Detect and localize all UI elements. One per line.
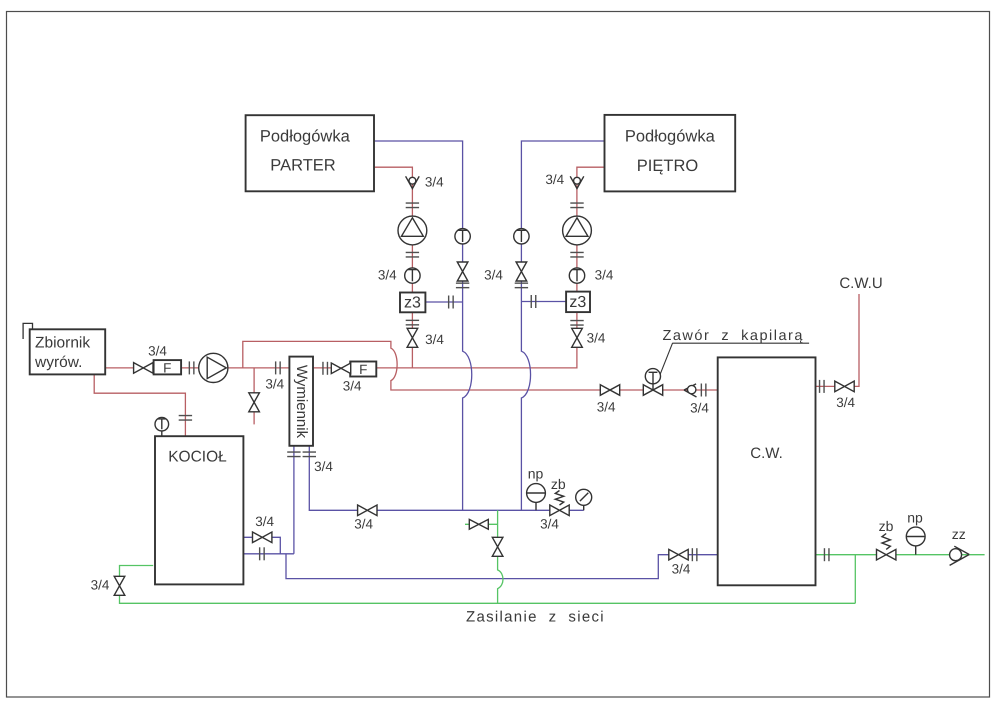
- svg-text:F: F: [163, 361, 171, 376]
- svg-text:Podłogówka: Podłogówka: [260, 128, 351, 146]
- label 3/4 green fill valve: [91, 578, 110, 593]
- thermometer T2 PIETRO column: [569, 268, 584, 283]
- valve green riser: [492, 537, 503, 556]
- box KOCIOL boiler: [155, 436, 243, 584]
- three-way valve with thermostat head: [643, 369, 662, 396]
- valve drain stub under main line: [249, 393, 260, 412]
- box C.W. hot water tank: [718, 357, 816, 585]
- label 3/4 return valve: [354, 517, 373, 532]
- label 3/4 union before Wymiennik: [265, 376, 284, 391]
- label 3/4 check valve C.W.: [690, 401, 709, 416]
- wire blue PARTER return column with pipe jump: [374, 141, 472, 510]
- thermometer T3 blue left: [455, 229, 470, 244]
- valve C.W.U: [835, 381, 854, 392]
- union above KOCIOL: [179, 416, 192, 421]
- thermometer T4 blue right: [514, 229, 529, 244]
- label 3/4 below z3 right: [587, 330, 606, 345]
- label C.W.U: [839, 275, 882, 292]
- svg-text:3/4: 3/4: [343, 379, 362, 394]
- pump P3 PIETRO: [563, 216, 592, 245]
- svg-text:np: np: [907, 510, 923, 526]
- svg-text:3/4: 3/4: [690, 401, 709, 416]
- box Zbiornik wyrownawczy: [30, 329, 106, 374]
- valve green drain stub: [469, 519, 488, 529]
- svg-text:zz: zz: [952, 526, 966, 542]
- union U15: [570, 252, 583, 257]
- union U8 z3 left connector: [449, 296, 454, 309]
- wire red Zbiornik bottom drop to KOCIOL top: [94, 374, 185, 436]
- capillary leader line: [660, 343, 672, 374]
- svg-text:F: F: [359, 362, 367, 377]
- valve below z3 left: [407, 328, 418, 347]
- valve C.W. bottom inlet: [669, 549, 688, 560]
- union U14: [570, 203, 583, 208]
- label 3/4 zb left: [540, 517, 559, 532]
- svg-text:Zawór z kapilarą: Zawór z kapilarą: [663, 328, 804, 344]
- svg-text:np: np: [528, 466, 544, 482]
- svg-text:3/4: 3/4: [484, 268, 503, 283]
- valve blue left column: [457, 262, 468, 281]
- label 3/4 valve C.W. supply: [597, 400, 616, 415]
- svg-text:Zasilanie z sieci: Zasilanie z sieci: [466, 609, 605, 626]
- svg-text:3/4: 3/4: [91, 578, 110, 593]
- svg-text:C.W.: C.W.: [750, 445, 783, 462]
- svg-text:PARTER: PARTER: [270, 157, 335, 175]
- union U16 below z3 right: [570, 321, 583, 326]
- wire blue z3 left connector: [425, 301, 462, 303]
- label Zasilanie z sieci: [466, 609, 605, 626]
- union C.W. bottom outlet green: [824, 548, 829, 561]
- valve after Wymiennik: [331, 363, 350, 374]
- wire green drain stub: [465, 523, 498, 525]
- union U17: [456, 283, 469, 288]
- wire red C.W.U riser: [816, 294, 860, 386]
- svg-text:Wymiennik: Wymiennik: [293, 365, 310, 439]
- svg-text:Podłogówka: Podłogówka: [625, 128, 716, 146]
- svg-text:z3: z3: [404, 294, 421, 311]
- label 3/4 C.W.U valve: [836, 395, 855, 410]
- svg-text:3/4: 3/4: [540, 517, 559, 532]
- wire blue PIETRO return column with pipe jump: [521, 141, 604, 510]
- svg-text:3/4: 3/4: [425, 332, 444, 347]
- svg-text:3/4: 3/4: [265, 376, 284, 391]
- valve Zbiornik outlet: [134, 363, 153, 374]
- label 3/4 air vent PARTER: [425, 174, 444, 189]
- overflow pipe hook on Zbiornik: [23, 323, 32, 339]
- wire green C.W. outlet line to right edge: [816, 554, 985, 556]
- wire red PARTER supply column: [374, 167, 412, 368]
- union U11: [406, 203, 419, 208]
- union U18: [515, 283, 528, 288]
- label 3/4 Wymiennik unions: [314, 459, 333, 474]
- svg-text:KOCIOŁ: KOCIOŁ: [168, 449, 227, 466]
- svg-text:3/4: 3/4: [314, 459, 333, 474]
- check valve zz: [950, 546, 970, 565]
- union Wymiennik left stem: [287, 452, 300, 457]
- box z3 mixing valve right: [566, 292, 590, 313]
- safety valve zb right: [877, 534, 896, 561]
- box filter F right: [350, 362, 376, 378]
- label zb right: [879, 518, 894, 534]
- box Podlogowka PIETRO: [605, 115, 736, 191]
- box filter F left: [154, 360, 182, 376]
- union before pump P1: [189, 361, 194, 374]
- label np left: [528, 466, 544, 482]
- union U9 z3 right connector: [531, 295, 536, 308]
- wire red drain stub below main line: [253, 368, 255, 425]
- label zb left: [551, 476, 566, 492]
- union C.W. bottom inlet: [692, 548, 697, 561]
- label 3/4 below z3 left: [425, 332, 444, 347]
- union before Wymiennik: [276, 361, 281, 374]
- union C.W. top outlet: [820, 380, 825, 393]
- wire green refill riser with pipe jump over blue: [498, 510, 503, 603]
- svg-text:3/4: 3/4: [545, 172, 564, 187]
- label 3/4 C.W. bottom valve: [672, 562, 691, 577]
- wire blue long bottom line to C.W.: [286, 554, 718, 579]
- valve return before np: [358, 505, 377, 516]
- union before C.W. inlet: [701, 384, 706, 397]
- valve blue right column: [516, 262, 527, 281]
- box z3 mixing valve left: [400, 293, 425, 313]
- valve below z3 right: [572, 328, 583, 347]
- svg-text:zb: zb: [551, 476, 566, 492]
- wire red main supply Zbiornik-pump-Wymiennik to PIETRO column elbow: [105, 167, 604, 368]
- wire green drop from C.W. line to bottom main: [854, 555, 856, 604]
- air vent np left: [527, 484, 546, 511]
- svg-text:3/4: 3/4: [148, 344, 167, 359]
- svg-text:3/4: 3/4: [378, 268, 397, 283]
- label 3/4 valve after Wymiennik: [343, 379, 362, 394]
- svg-text:3/4: 3/4: [597, 400, 616, 415]
- label 3/4 Zbiornik valve: [148, 344, 167, 359]
- safety valve zb left: [550, 491, 569, 516]
- label 3/4 air vent PIETRO: [545, 172, 564, 187]
- label 3/4 left of T1: [378, 268, 397, 283]
- union U13 below z3 left: [406, 320, 419, 325]
- union U12: [406, 252, 419, 257]
- valve green KOCIOL fill: [114, 576, 125, 595]
- svg-text:3/4: 3/4: [255, 514, 274, 529]
- svg-text:3/4: 3/4: [672, 562, 691, 577]
- label Zawor z kapilara: [663, 328, 810, 344]
- svg-text:wyrów.: wyrów.: [34, 354, 82, 371]
- wire blue return main to Wymiennik right stem: [309, 446, 583, 511]
- union after Wymiennik: [323, 362, 328, 375]
- svg-text:Zbiornik: Zbiornik: [35, 335, 90, 352]
- svg-text:3/4: 3/4: [354, 517, 373, 532]
- thermometer T1 PARTER column: [405, 268, 420, 283]
- label np right: [907, 510, 923, 526]
- air vent check valve PIETRO column: [570, 176, 584, 188]
- air vent np right: [906, 527, 925, 555]
- label 3/4 right of T2: [595, 268, 614, 283]
- wire blue KOCIOL side valve line: [243, 537, 280, 554]
- air vent check valve PARTER column: [406, 176, 420, 188]
- label 3/4 KOCIOL side valve: [255, 514, 274, 529]
- check valve before C.W.: [684, 384, 697, 397]
- svg-text:3/4: 3/4: [425, 174, 444, 189]
- union Wymiennik right stem: [303, 452, 316, 457]
- svg-text:3/4: 3/4: [587, 330, 606, 345]
- svg-text:3/4: 3/4: [836, 395, 855, 410]
- box Wymiennik heat exchanger: [289, 357, 313, 446]
- wire blue KOCIOL bottom return: [243, 553, 294, 555]
- svg-text:3/4: 3/4: [595, 268, 614, 283]
- wire green KOCIOL fill line and bottom main: [120, 566, 856, 604]
- svg-text:PIĘTRO: PIĘTRO: [637, 157, 699, 175]
- wire blue Wymiennik left stem: [293, 446, 295, 554]
- valve KOCIOL side: [253, 532, 272, 543]
- valve on C.W. supply: [600, 385, 619, 396]
- pressure gauge: [576, 489, 592, 510]
- svg-text:C.W.U: C.W.U: [839, 275, 882, 292]
- svg-text:zb: zb: [879, 518, 894, 534]
- label zz: [952, 526, 966, 542]
- pump P1 near Zbiornik: [199, 353, 228, 382]
- wire blue z3 right connector: [521, 301, 566, 303]
- wire red branch to C.W. with pipe jump: [243, 341, 718, 390]
- box Podlogowka PARTER: [246, 115, 374, 191]
- svg-text:z3: z3: [569, 294, 586, 311]
- label 3/4 between blue columns: [484, 268, 503, 283]
- union KOCIOL bottom: [260, 547, 265, 560]
- pump P2 PARTER: [398, 216, 427, 245]
- thermometer T on KOCIOL: [155, 417, 169, 436]
